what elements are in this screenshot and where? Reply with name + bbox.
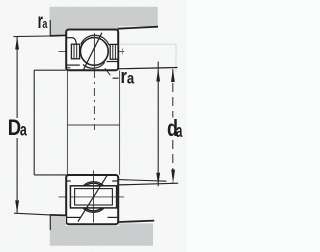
faint page rule horizontal <box>120 43 176 45</box>
dimension da line <box>157 62 159 187</box>
inner ring left shoulder line bottom <box>67 180 71 182</box>
housing shoulder left edge bottom <box>49 215 51 230</box>
cage pocket right top <box>110 44 118 59</box>
shaft shoulder line bottom right (da level) <box>119 183 178 185</box>
outer ring left shoulder line top <box>67 37 73 39</box>
scan grain overlay <box>0 0 187 252</box>
outer ring raceway arc bottom <box>82 207 106 213</box>
small tick on centerline right <box>121 49 123 55</box>
housing bore line right of bearing top <box>118 27 158 29</box>
inner ring raceway arc top <box>83 62 105 68</box>
shaft shoulder line top right (da level) <box>118 68 177 69</box>
ball top <box>80 38 108 66</box>
contact angle diagonal bottom <box>78 174 108 221</box>
inner ring face tick <box>113 77 119 79</box>
bearing outer box top <box>66 30 118 71</box>
shaft seat line bottom right <box>119 180 167 182</box>
bearing right face projection line <box>119 70 121 174</box>
outer ring right shoulder line bottom <box>108 216 118 218</box>
row centerline bottom <box>59 196 125 198</box>
da arrow up <box>156 69 160 82</box>
contact angle diagonal top <box>83 33 102 71</box>
faint page rule vertical <box>175 44 177 72</box>
inner ring raceway arc bottom <box>83 182 104 186</box>
dimension Da reference line bottom <box>14 213 50 215</box>
inner ring right shoulder line top <box>107 61 118 63</box>
dashed line arrow up <box>171 69 175 82</box>
inner ring left shoulder line top <box>67 64 80 66</box>
shaft bottom surface line <box>34 174 66 176</box>
cage band inner rect bottom <box>75 189 113 205</box>
outer ring left shoulder line bottom <box>67 216 81 218</box>
bearing left face projection line <box>66 70 68 174</box>
shaft top surface line <box>34 69 66 71</box>
dimension Da reference line top <box>14 35 51 38</box>
da arrow down <box>156 173 160 185</box>
small fillet tick near ra mid <box>105 68 110 75</box>
ball bottom <box>80 183 108 211</box>
radial centerline bottom bearing <box>93 171 95 223</box>
housing bore line right of bearing bottom <box>119 221 154 222</box>
housing bottom (grey block) <box>50 216 153 246</box>
Da arrow down <box>15 200 19 213</box>
dimension Da line <box>16 37 18 118</box>
bearing outer box bottom <box>66 175 118 224</box>
cage pocket left top <box>71 44 79 59</box>
outer ring left raceway drop top <box>73 38 76 44</box>
outer ring right shoulder line top <box>109 44 118 46</box>
mid horizontal line <box>67 124 119 126</box>
row centerline top <box>59 50 125 52</box>
dashed line arrow down <box>171 170 175 184</box>
housing shoulder top line bottom (Da level) <box>50 214 67 217</box>
radial centerline top bearing <box>93 33 95 70</box>
shaft left end line <box>33 70 35 175</box>
housing shoulder bottom line top (Da level) <box>50 34 69 37</box>
row centerline bottom overlay <box>70 196 117 198</box>
housing top (grey block) <box>50 7 158 35</box>
cage band outer rect bottom <box>70 186 116 208</box>
dimension line dashed right <box>172 69 174 118</box>
outer ring raceway arc top <box>81 35 109 45</box>
inner ring left chamfer line top <box>67 67 71 69</box>
Da arrow up <box>15 37 19 50</box>
housing shoulder left edge top <box>49 20 51 36</box>
inner ring right shoulder line bottom <box>112 180 117 182</box>
